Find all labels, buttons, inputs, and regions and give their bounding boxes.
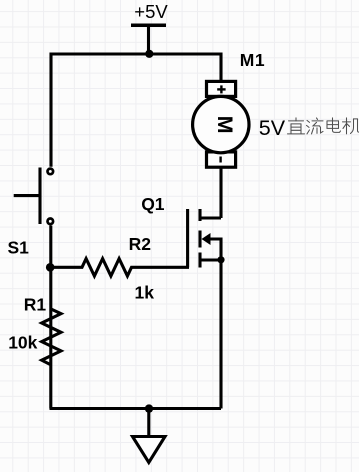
svg-text:S1: S1: [8, 238, 30, 258]
svg-text:Q1: Q1: [141, 194, 165, 214]
svg-text:M1: M1: [240, 50, 266, 70]
svg-text:R2: R2: [129, 234, 152, 254]
svg-text:10k: 10k: [8, 333, 37, 353]
svg-text:1k: 1k: [135, 283, 155, 303]
svg-text:M: M: [213, 116, 237, 134]
svg-text:5V: 5V: [259, 116, 286, 140]
svg-text:R1: R1: [24, 295, 47, 315]
svg-text:+5V: +5V: [134, 1, 168, 22]
